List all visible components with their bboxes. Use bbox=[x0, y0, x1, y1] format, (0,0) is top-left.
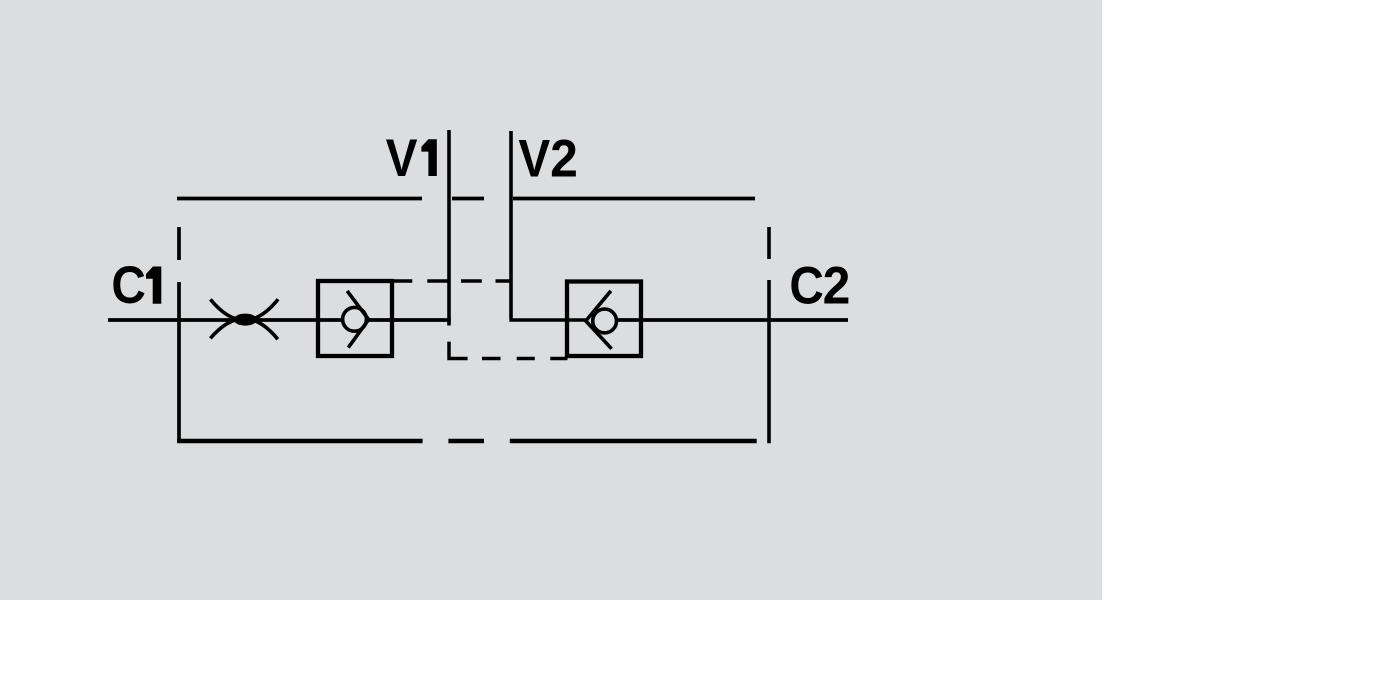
svg-text:C: C bbox=[111, 256, 146, 315]
enclosure top stub between V1 and V2 bbox=[452, 197, 484, 201]
enclosure right border dashes bbox=[767, 227, 771, 443]
port label C1 bbox=[111, 256, 161, 315]
wire check valve CV2 to C2 bbox=[618, 318, 849, 322]
svg-text:V: V bbox=[386, 129, 418, 188]
port label C2 bbox=[789, 256, 850, 315]
svg-text:2: 2 bbox=[823, 256, 851, 314]
check valve CV2 body square bbox=[567, 282, 641, 357]
port label V2 bbox=[518, 129, 577, 188]
check valve CV1 ball bbox=[343, 307, 367, 331]
pilot line dashed corner below V1 bbox=[447, 342, 467, 359]
orifice throttle lower arc bbox=[210, 319, 277, 340]
wire main line C1 to check valve CV1 bbox=[108, 318, 342, 322]
pilot line dashes from CV1 to V2 bbox=[427, 279, 509, 283]
orifice throttle upper arc bbox=[210, 299, 278, 320]
enclosure left border dashes bbox=[177, 227, 181, 443]
wire V1 vertical line bbox=[447, 130, 451, 326]
check valve CV2 ball bbox=[593, 309, 617, 333]
svg-text:C: C bbox=[789, 257, 824, 316]
enclosure top-left dash bbox=[177, 197, 422, 201]
enclosure bottom border dashes bbox=[177, 439, 757, 443]
check valve CV1 seat bbox=[347, 291, 368, 348]
wire check valve CV1 to V1 node bbox=[369, 318, 451, 322]
wire V2 vertical line with corner to check valve CV2 bbox=[509, 131, 586, 320]
gray drawing panel background bbox=[0, 0, 1102, 600]
svg-text:V: V bbox=[518, 129, 550, 188]
svg-text:2: 2 bbox=[550, 130, 578, 188]
port label V1 bbox=[386, 129, 437, 188]
enclosure top-right dash bbox=[513, 197, 755, 201]
orifice throttle center junction blob bbox=[234, 314, 257, 326]
check valve CV2 seat bbox=[586, 291, 612, 349]
check valve CV1 body square bbox=[318, 281, 392, 356]
pilot line dashes to CV2 bottom bbox=[482, 357, 568, 361]
check valve CV1 pilot stub on top edge bbox=[392, 279, 412, 283]
